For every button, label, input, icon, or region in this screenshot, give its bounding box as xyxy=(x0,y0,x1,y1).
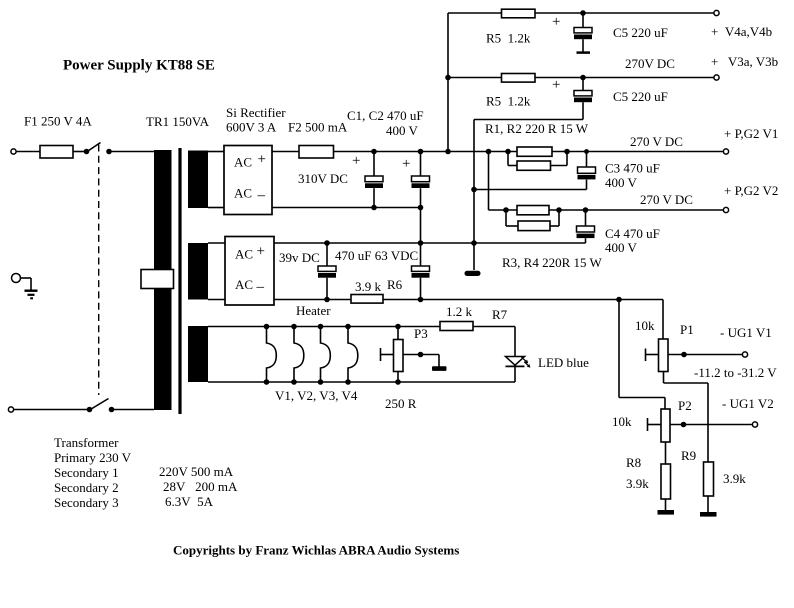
svg-text:Primary 230 V: Primary 230 V xyxy=(54,450,132,465)
svg-text:LED blue: LED blue xyxy=(538,355,589,370)
svg-text:AC: AC xyxy=(235,277,253,292)
svg-text:470 uF 63 VDC: 470 uF 63 VDC xyxy=(335,248,418,263)
svg-text:270 V DC: 270 V DC xyxy=(630,134,683,149)
svg-text:- UG1 V2: - UG1 V2 xyxy=(722,396,774,411)
svg-text:Copyrights by Franz Wichlas AB: Copyrights by Franz Wichlas ABRA Audio S… xyxy=(173,543,459,558)
svg-text:600V 3 A: 600V 3 A xyxy=(226,120,277,135)
svg-text:250 R: 250 R xyxy=(385,396,417,411)
svg-text:–: – xyxy=(256,279,265,295)
svg-text:R7: R7 xyxy=(492,307,508,322)
svg-text:C1, C2 470 uF: C1, C2 470 uF xyxy=(347,108,424,123)
svg-text:P2: P2 xyxy=(678,398,692,413)
svg-text:400 V: 400 V xyxy=(605,240,638,255)
svg-text:Heater: Heater xyxy=(296,303,331,318)
svg-text:39v DC: 39v DC xyxy=(279,250,320,265)
svg-text:R5 1.2k: R5 1.2k xyxy=(486,31,531,46)
svg-text:+ P,G2 V2: + P,G2 V2 xyxy=(724,183,778,198)
svg-text:R8: R8 xyxy=(626,455,641,470)
svg-text:310V DC: 310V DC xyxy=(298,171,348,186)
svg-text:3.9k: 3.9k xyxy=(723,471,746,486)
svg-text:400 V: 400 V xyxy=(386,123,419,138)
svg-text:Transformer: Transformer xyxy=(54,435,119,450)
svg-text:+: + xyxy=(257,244,265,260)
svg-text:400 V: 400 V xyxy=(605,175,638,190)
svg-text:Secondary 2: Secondary 2 xyxy=(54,480,119,495)
svg-text:R3, R4 220R 15 W: R3, R4 220R 15 W xyxy=(502,255,603,270)
svg-text:- UG1 V1: - UG1 V1 xyxy=(720,325,772,340)
svg-text:3.9 k: 3.9 k xyxy=(355,279,382,294)
svg-text:+: + xyxy=(352,153,360,169)
svg-text:+: + xyxy=(258,152,266,168)
svg-text:Power Supply KT88 SE: Power Supply KT88 SE xyxy=(63,58,215,74)
svg-text:+ V3a, V3b: + V3a, V3b xyxy=(711,54,778,69)
svg-text:3.9k: 3.9k xyxy=(626,476,649,491)
svg-text:Secondary 3: Secondary 3 xyxy=(54,495,119,510)
svg-text:R5 1.2k: R5 1.2k xyxy=(486,94,531,109)
svg-text:R6: R6 xyxy=(387,277,403,292)
svg-text:P3: P3 xyxy=(414,326,428,341)
svg-text:–: – xyxy=(257,188,266,204)
svg-text:AC: AC xyxy=(234,186,252,201)
svg-text:C5 220 uF: C5 220 uF xyxy=(613,25,668,40)
svg-text:+ V4a,V4b: + V4a,V4b xyxy=(711,24,772,39)
svg-text:270 V DC: 270 V DC xyxy=(640,192,693,207)
svg-text:C4 470 uF: C4 470 uF xyxy=(605,226,660,241)
svg-text:1.2 k: 1.2 k xyxy=(446,304,473,319)
svg-text:R9: R9 xyxy=(681,448,696,463)
svg-text:TR1 150VA: TR1 150VA xyxy=(146,114,210,129)
svg-text:220V 500 mA: 220V 500 mA xyxy=(159,464,234,479)
svg-text:P1: P1 xyxy=(680,322,694,337)
svg-text:10k: 10k xyxy=(635,318,655,333)
svg-text:Si Rectifier: Si Rectifier xyxy=(226,105,286,120)
svg-text:V1, V2, V3, V4: V1, V2, V3, V4 xyxy=(275,388,358,403)
svg-text:Secondary 1: Secondary 1 xyxy=(54,465,119,480)
svg-text:R1, R2 220 R 15 W: R1, R2 220 R 15 W xyxy=(485,121,589,136)
svg-text:C5 220 uF: C5 220 uF xyxy=(613,89,668,104)
svg-text:6.3V 5A: 6.3V 5A xyxy=(165,494,214,509)
svg-text:F2 500 mA: F2 500 mA xyxy=(288,120,348,135)
svg-text:-11.2 to -31.2 V: -11.2 to -31.2 V xyxy=(694,365,777,380)
svg-text:10k: 10k xyxy=(612,414,632,429)
svg-text:C3 470 uF: C3 470 uF xyxy=(605,161,660,176)
svg-text:+ P,G2 V1: + P,G2 V1 xyxy=(724,126,778,141)
svg-text:F1 250 V 4A: F1 250 V 4A xyxy=(24,114,92,129)
svg-text:+: + xyxy=(552,77,560,93)
svg-text:28V 200 mA: 28V 200 mA xyxy=(163,479,238,494)
svg-text:AC: AC xyxy=(235,247,253,262)
svg-text:270V DC: 270V DC xyxy=(625,56,675,71)
svg-text:AC: AC xyxy=(234,155,252,170)
svg-text:+: + xyxy=(552,14,560,30)
svg-text:+: + xyxy=(402,156,410,172)
